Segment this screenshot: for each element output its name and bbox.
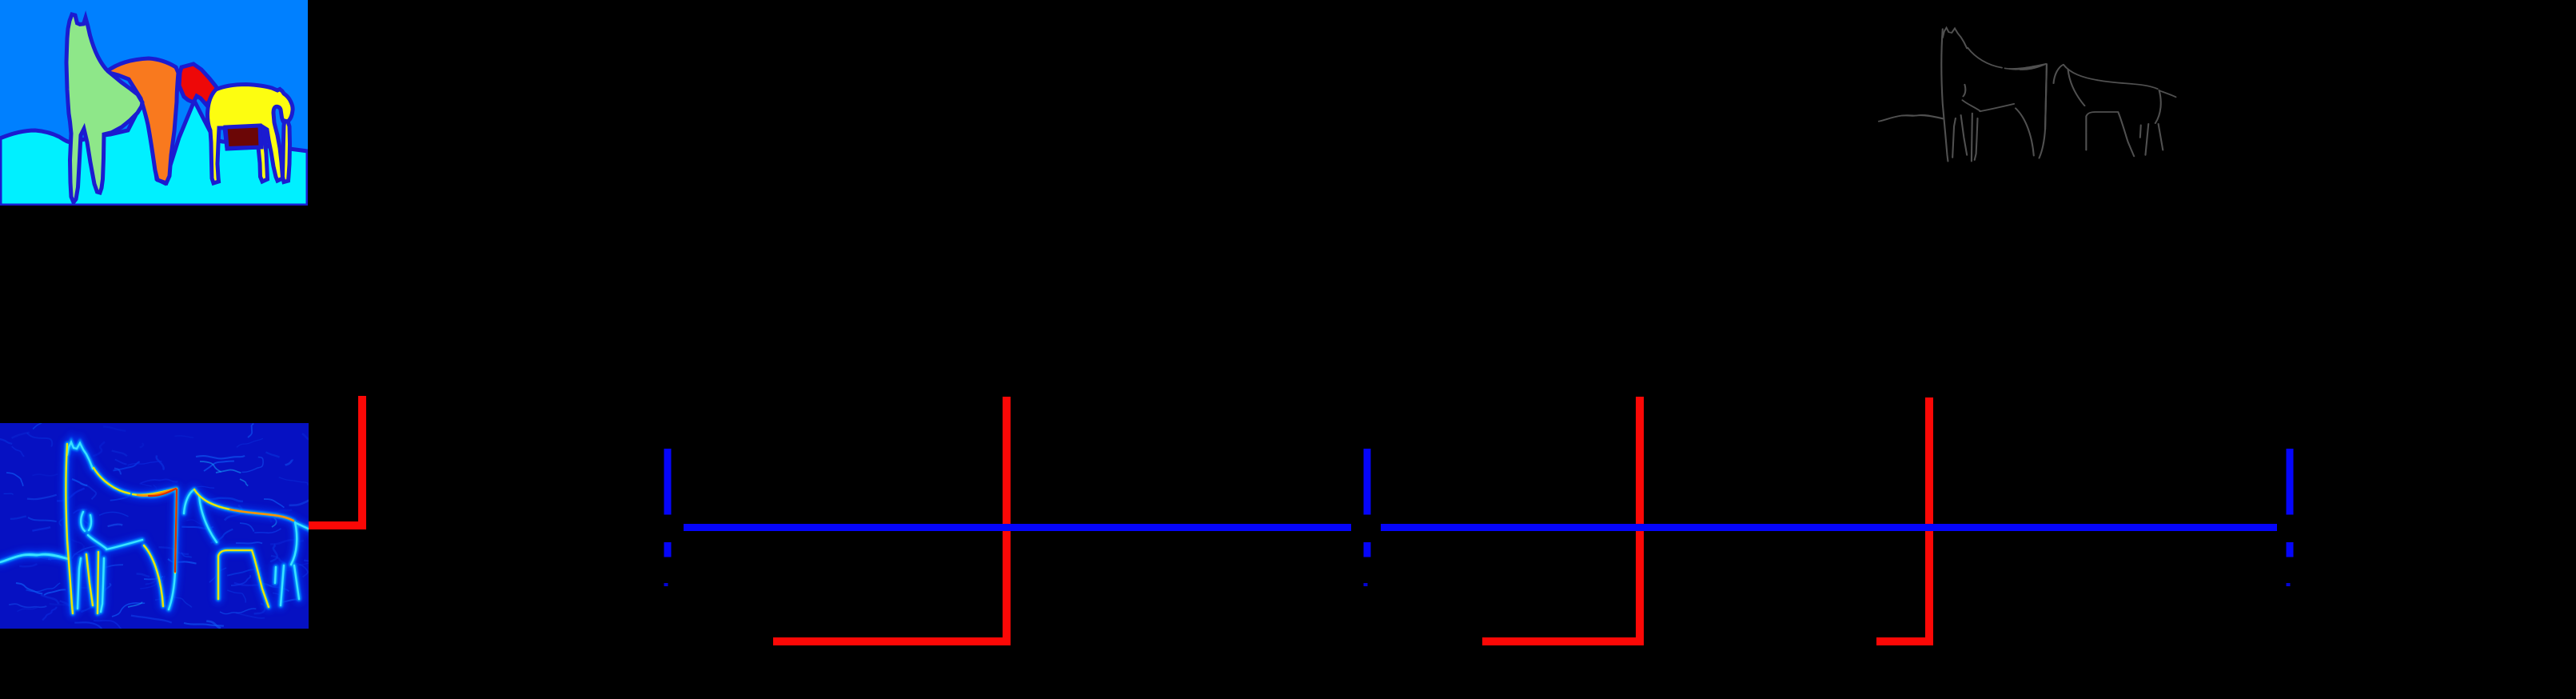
segmentation map image (top-left) <box>0 0 308 206</box>
blue dashed vertical b <box>1364 449 1371 557</box>
background noise filaments <box>93 441 105 456</box>
yellow far front leg <box>283 121 290 182</box>
blue horizontal line 1 <box>684 524 1351 531</box>
orange horse part <box>107 58 178 183</box>
green horse <box>66 14 142 202</box>
maroon patch <box>225 126 261 149</box>
red connector 3 <box>1482 397 1640 641</box>
deep blue background <box>0 423 309 629</box>
blue dashed vertical a <box>664 449 672 557</box>
blue dashed vertical c <box>2287 449 2294 557</box>
red horse part <box>179 64 219 105</box>
red connector 1 (from edge map) <box>309 396 362 525</box>
yellow horse <box>207 85 293 184</box>
faint hidden photo outline (top-right) <box>1879 28 2175 328</box>
cyan ground <box>0 101 308 206</box>
horse boundary glows <box>0 442 313 699</box>
red connector 2 <box>773 397 1007 641</box>
blue horizontal line 2 <box>1381 524 2277 531</box>
red connector 4 <box>1876 397 1929 641</box>
sky background <box>0 0 308 206</box>
edge probability map image (bottom-left) <box>0 416 321 699</box>
